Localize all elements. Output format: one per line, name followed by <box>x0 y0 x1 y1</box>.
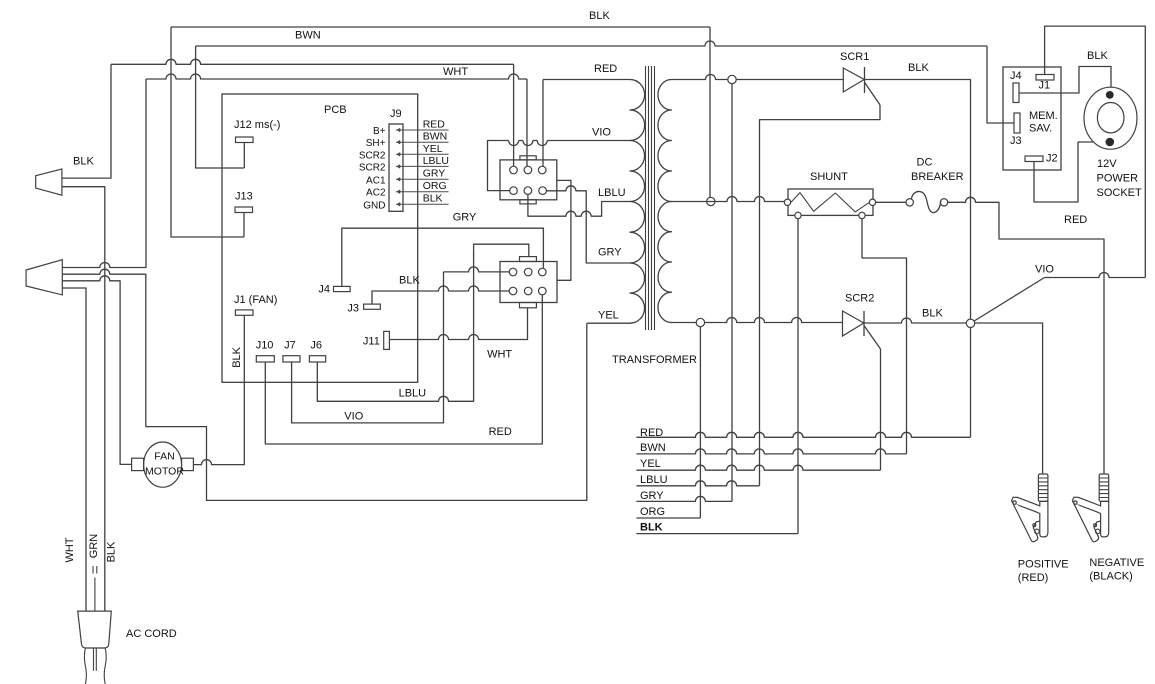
svg-text:MOTOR: MOTOR <box>145 466 184 478</box>
connector J4 (mem saver) <box>1010 70 1022 103</box>
wire J4 to GRY line <box>342 211 544 286</box>
connector J1 (mem saver) <box>1036 75 1054 92</box>
AC plug <box>78 611 177 648</box>
connector J12 <box>234 119 280 168</box>
wire RED bundle line <box>636 427 970 439</box>
svg-text:VIO: VIO <box>592 127 611 139</box>
svg-text:TRANSFORMER: TRANSFORMER <box>612 354 697 366</box>
svg-text:BLK: BLK <box>231 346 243 367</box>
junction node (SCR outputs / VIO / clamp feed) <box>966 319 974 327</box>
wire J11 WHT to lower connector tab <box>389 308 527 361</box>
wire RED primary tap <box>543 63 630 80</box>
positive battery clamp <box>1012 474 1069 584</box>
wire secondary middle tap to shunt <box>672 197 785 202</box>
connector J2 (mem saver) <box>1025 153 1058 165</box>
J9 pin AC2 <box>366 180 449 199</box>
wire secondary top tap to SCR1 anode <box>672 75 844 80</box>
wire J1 to fan motor BLK <box>193 315 244 464</box>
wire arrow2 w3 to fan left terminal <box>62 276 131 465</box>
wire line 4 (to connector pin) <box>146 74 527 79</box>
svg-text:WHT: WHT <box>487 349 512 361</box>
wire YEL bundle line <box>636 458 880 470</box>
svg-text:BREAKER: BREAKER <box>911 171 964 183</box>
wire GRY bundle line <box>636 490 732 502</box>
connector J9 <box>389 108 403 211</box>
wire BLK bundle line <box>636 522 798 534</box>
wire vertical J12-to-BWN line <box>196 46 245 168</box>
wire VIO from junction to right rail <box>974 264 1145 322</box>
wire ORG vertical (bottom tap to ORG bundle) <box>699 327 701 518</box>
wire P1 pin6 to GRY tap <box>546 186 630 263</box>
wire BLK line1 down to middle tap <box>709 27 711 197</box>
svg-text:SAV.: SAV. <box>1029 123 1052 135</box>
transformer primary winding <box>630 80 645 324</box>
thyristor SCR1 <box>840 51 880 105</box>
svg-text:BWN: BWN <box>295 30 321 42</box>
wire right rail BLK to J1 memory saver <box>1045 26 1146 277</box>
svg-text:SCR2: SCR2 <box>845 293 874 305</box>
svg-text:BLK: BLK <box>423 192 443 204</box>
svg-text:DC: DC <box>917 157 933 169</box>
svg-text:J13: J13 <box>235 191 253 203</box>
circuit breaker CB1 <box>906 157 964 213</box>
svg-text:J6: J6 <box>310 340 322 352</box>
svg-text:RED: RED <box>423 119 446 131</box>
svg-text:YEL: YEL <box>598 310 619 322</box>
wire SCR1 gate to LBLU bundle vertical <box>760 105 881 486</box>
J9 pin SCR2 a <box>359 143 449 162</box>
svg-text:AC2: AC2 <box>366 188 386 199</box>
wire arrow2 w4 to AC cord WHT <box>62 288 86 611</box>
svg-text:BLK: BLK <box>73 156 94 168</box>
svg-text:J2: J2 <box>1046 153 1058 165</box>
svg-text:J1: J1 <box>1039 80 1051 92</box>
svg-text:BWN: BWN <box>640 442 666 454</box>
wire J10 RED <box>265 291 542 444</box>
svg-text:12V: 12V <box>1097 158 1117 170</box>
J9 pin SCR2 b <box>359 155 449 174</box>
splice arrow A2 <box>26 260 62 295</box>
wire BWN bundle line <box>636 442 906 454</box>
svg-text:GRY: GRY <box>640 490 664 502</box>
svg-text:SCR2: SCR2 <box>359 150 386 161</box>
transformer secondary winding <box>658 80 672 323</box>
svg-text:YEL: YEL <box>423 143 443 155</box>
junction circle top tap / GRY sense <box>728 75 736 83</box>
svg-text:WHT: WHT <box>64 537 76 562</box>
wire LBLU vertical to P2 top tab <box>474 244 529 256</box>
svg-text:AC CORD: AC CORD <box>126 628 177 640</box>
wire cord strands below plug <box>84 648 106 684</box>
connector J10 <box>256 340 275 362</box>
wire SCR2 cathode BLK to junction and positive feed <box>864 308 1043 474</box>
label NEGATIVE <box>1089 557 1144 583</box>
svg-text:LBLU: LBLU <box>399 388 427 400</box>
svg-text:BLK: BLK <box>589 10 610 22</box>
svg-text:YEL: YEL <box>640 458 661 470</box>
wire J7 VIO <box>292 272 444 423</box>
svg-text:BLK: BLK <box>908 62 929 74</box>
wire LBLU bundle line <box>636 474 759 486</box>
svg-text:ORG: ORG <box>423 180 447 192</box>
wire J2 to socket bottom contact <box>1034 142 1106 202</box>
svg-text:SCR2: SCR2 <box>359 162 386 173</box>
J9 pin SH+ <box>366 131 449 150</box>
wire shunt bottom-left to BLK bundle <box>797 219 799 534</box>
wire RED tap down to P1 pin3 <box>542 80 544 167</box>
wire J3 BLK to lower connector <box>372 274 510 304</box>
svg-text:J10: J10 <box>256 340 274 352</box>
svg-text:WHT: WHT <box>443 66 468 78</box>
svg-text:(BLACK): (BLACK) <box>1089 571 1132 583</box>
svg-text:GND: GND <box>363 200 385 211</box>
wire breaker RED to negative clamp <box>948 197 1104 473</box>
svg-text:BLK: BLK <box>399 274 420 286</box>
fan motor M1 <box>132 442 194 487</box>
wire arrow2 w2 to YEL tap (via fan area) <box>62 269 587 500</box>
wire shunt bottom-right to BWN bundle <box>862 219 907 454</box>
wire P1 pin5 to LBLU tap <box>528 194 630 216</box>
wire arrow2 w1 to line4 <box>62 79 146 268</box>
svg-text:GRY: GRY <box>453 211 477 223</box>
svg-text:J11: J11 <box>363 335 380 347</box>
svg-text:VIO: VIO <box>1035 264 1054 276</box>
svg-text:LBLU: LBLU <box>640 474 668 486</box>
svg-text:J1 (FAN): J1 (FAN) <box>234 294 277 306</box>
wire BWN line2 down to J3 <box>987 46 1014 123</box>
svg-text:J3: J3 <box>347 302 359 314</box>
J9 pin B+ <box>373 119 449 138</box>
svg-text:PCB: PCB <box>324 104 347 116</box>
svg-text:GRY: GRY <box>598 247 622 259</box>
svg-text:SH+: SH+ <box>366 138 386 149</box>
svg-text:RED: RED <box>594 63 617 75</box>
wire junction down to RED bundle <box>970 328 972 438</box>
wire arrow1 bottom to AC cord BLK <box>62 187 105 611</box>
wire arrow1 top to WHT line3 <box>62 64 111 178</box>
wire SCR2 gate to YEL bundle vertical <box>880 349 882 470</box>
svg-text:RED: RED <box>1064 214 1087 226</box>
J9 pin AC1 <box>366 167 449 186</box>
svg-text:BLK: BLK <box>922 308 943 320</box>
svg-text:J4: J4 <box>1010 70 1022 82</box>
splice arrow A1 <box>36 156 95 196</box>
svg-text:BWN: BWN <box>423 131 448 143</box>
connector P1 upper 6-pin body <box>500 156 557 204</box>
svg-text:J12 ms(-): J12 ms(-) <box>234 119 280 131</box>
svg-text:BLK: BLK <box>1087 50 1108 62</box>
wire line4 down to P1 pin2 <box>526 79 528 166</box>
svg-text:BLK: BLK <box>640 522 663 534</box>
svg-text:VIO: VIO <box>344 411 363 423</box>
connector J4 on PCB <box>318 284 350 296</box>
svg-text:J7: J7 <box>284 340 296 352</box>
wire J4 to socket top contact <box>1019 67 1111 94</box>
wire vertical J13-to-BLK line <box>171 27 244 237</box>
connector J3 (mem saver) <box>1010 113 1022 147</box>
svg-text:RED: RED <box>489 426 512 438</box>
svg-text:SCR1: SCR1 <box>840 51 869 63</box>
svg-text:RED: RED <box>640 427 663 439</box>
connector J3 on PCB <box>347 302 380 314</box>
svg-text:B+: B+ <box>373 126 386 137</box>
wire WHT line 3 <box>111 59 514 78</box>
svg-text:J4: J4 <box>318 284 330 296</box>
J9 pin GND <box>363 192 448 211</box>
memory saver box MEM.SAV. <box>1003 67 1061 170</box>
svg-text:J9: J9 <box>390 108 402 120</box>
connector J11 <box>363 331 390 349</box>
svg-text:J3: J3 <box>1010 135 1022 147</box>
negative battery clamp <box>1072 474 1108 542</box>
wire VIO tap wrap to P1 pin4 <box>488 141 631 191</box>
connector P2 lower 6-pin body <box>500 257 557 308</box>
svg-text:NEGATIVE: NEGATIVE <box>1089 557 1144 569</box>
transformer T1 core <box>646 66 655 330</box>
svg-text:POWER: POWER <box>1097 173 1139 185</box>
shunt R1 <box>784 171 875 219</box>
thyristor SCR2 <box>843 293 881 350</box>
svg-text:LBLU: LBLU <box>423 155 449 167</box>
svg-text:SOCKET: SOCKET <box>1097 187 1143 199</box>
svg-text:AC1: AC1 <box>366 175 386 186</box>
svg-text:BLK: BLK <box>106 541 118 562</box>
svg-text:FAN: FAN <box>154 450 174 462</box>
PCB outline <box>222 94 418 382</box>
svg-text:MEM.: MEM. <box>1029 110 1058 122</box>
svg-text:(RED): (RED) <box>1018 572 1049 584</box>
wire BWN top line 2 <box>196 30 987 47</box>
svg-text:LBLU: LBLU <box>598 187 626 199</box>
wire AC cord GRN dashes <box>88 534 100 611</box>
svg-text:SHUNT: SHUNT <box>810 171 848 183</box>
wire WHT line3 down to P1 pin1 <box>513 64 515 166</box>
svg-text:GRN: GRN <box>88 534 100 559</box>
wire J6 LBLU <box>317 249 473 401</box>
svg-text:GRY: GRY <box>423 167 446 179</box>
wire GRY sense vertical (top tap to GRY bundle) <box>731 84 733 502</box>
wire P1 mid stub to P2 mid stub <box>557 180 571 280</box>
wire BLK top line 1 <box>171 10 710 27</box>
wire shunt to breaker <box>876 201 906 203</box>
wire secondary bottom tap to SCR2 anode <box>672 318 843 323</box>
connector J13 <box>235 191 253 238</box>
connector J1 (FAN) <box>234 294 277 315</box>
wire SCR1 cathode BLK to junction <box>865 62 971 319</box>
svg-text:ORG: ORG <box>640 506 665 518</box>
wire YEL primary tap <box>587 310 630 324</box>
junction circle bottom tap / ORG <box>696 318 704 326</box>
wire ORG bundle line <box>636 506 700 518</box>
svg-text:POSITIVE: POSITIVE <box>1018 559 1069 571</box>
wire VIO to P2 pin1 <box>444 267 510 272</box>
junction circle middle tap <box>707 197 715 205</box>
12V power socket <box>1084 87 1142 199</box>
connector J7 <box>283 340 300 362</box>
connector J6 <box>309 340 325 362</box>
